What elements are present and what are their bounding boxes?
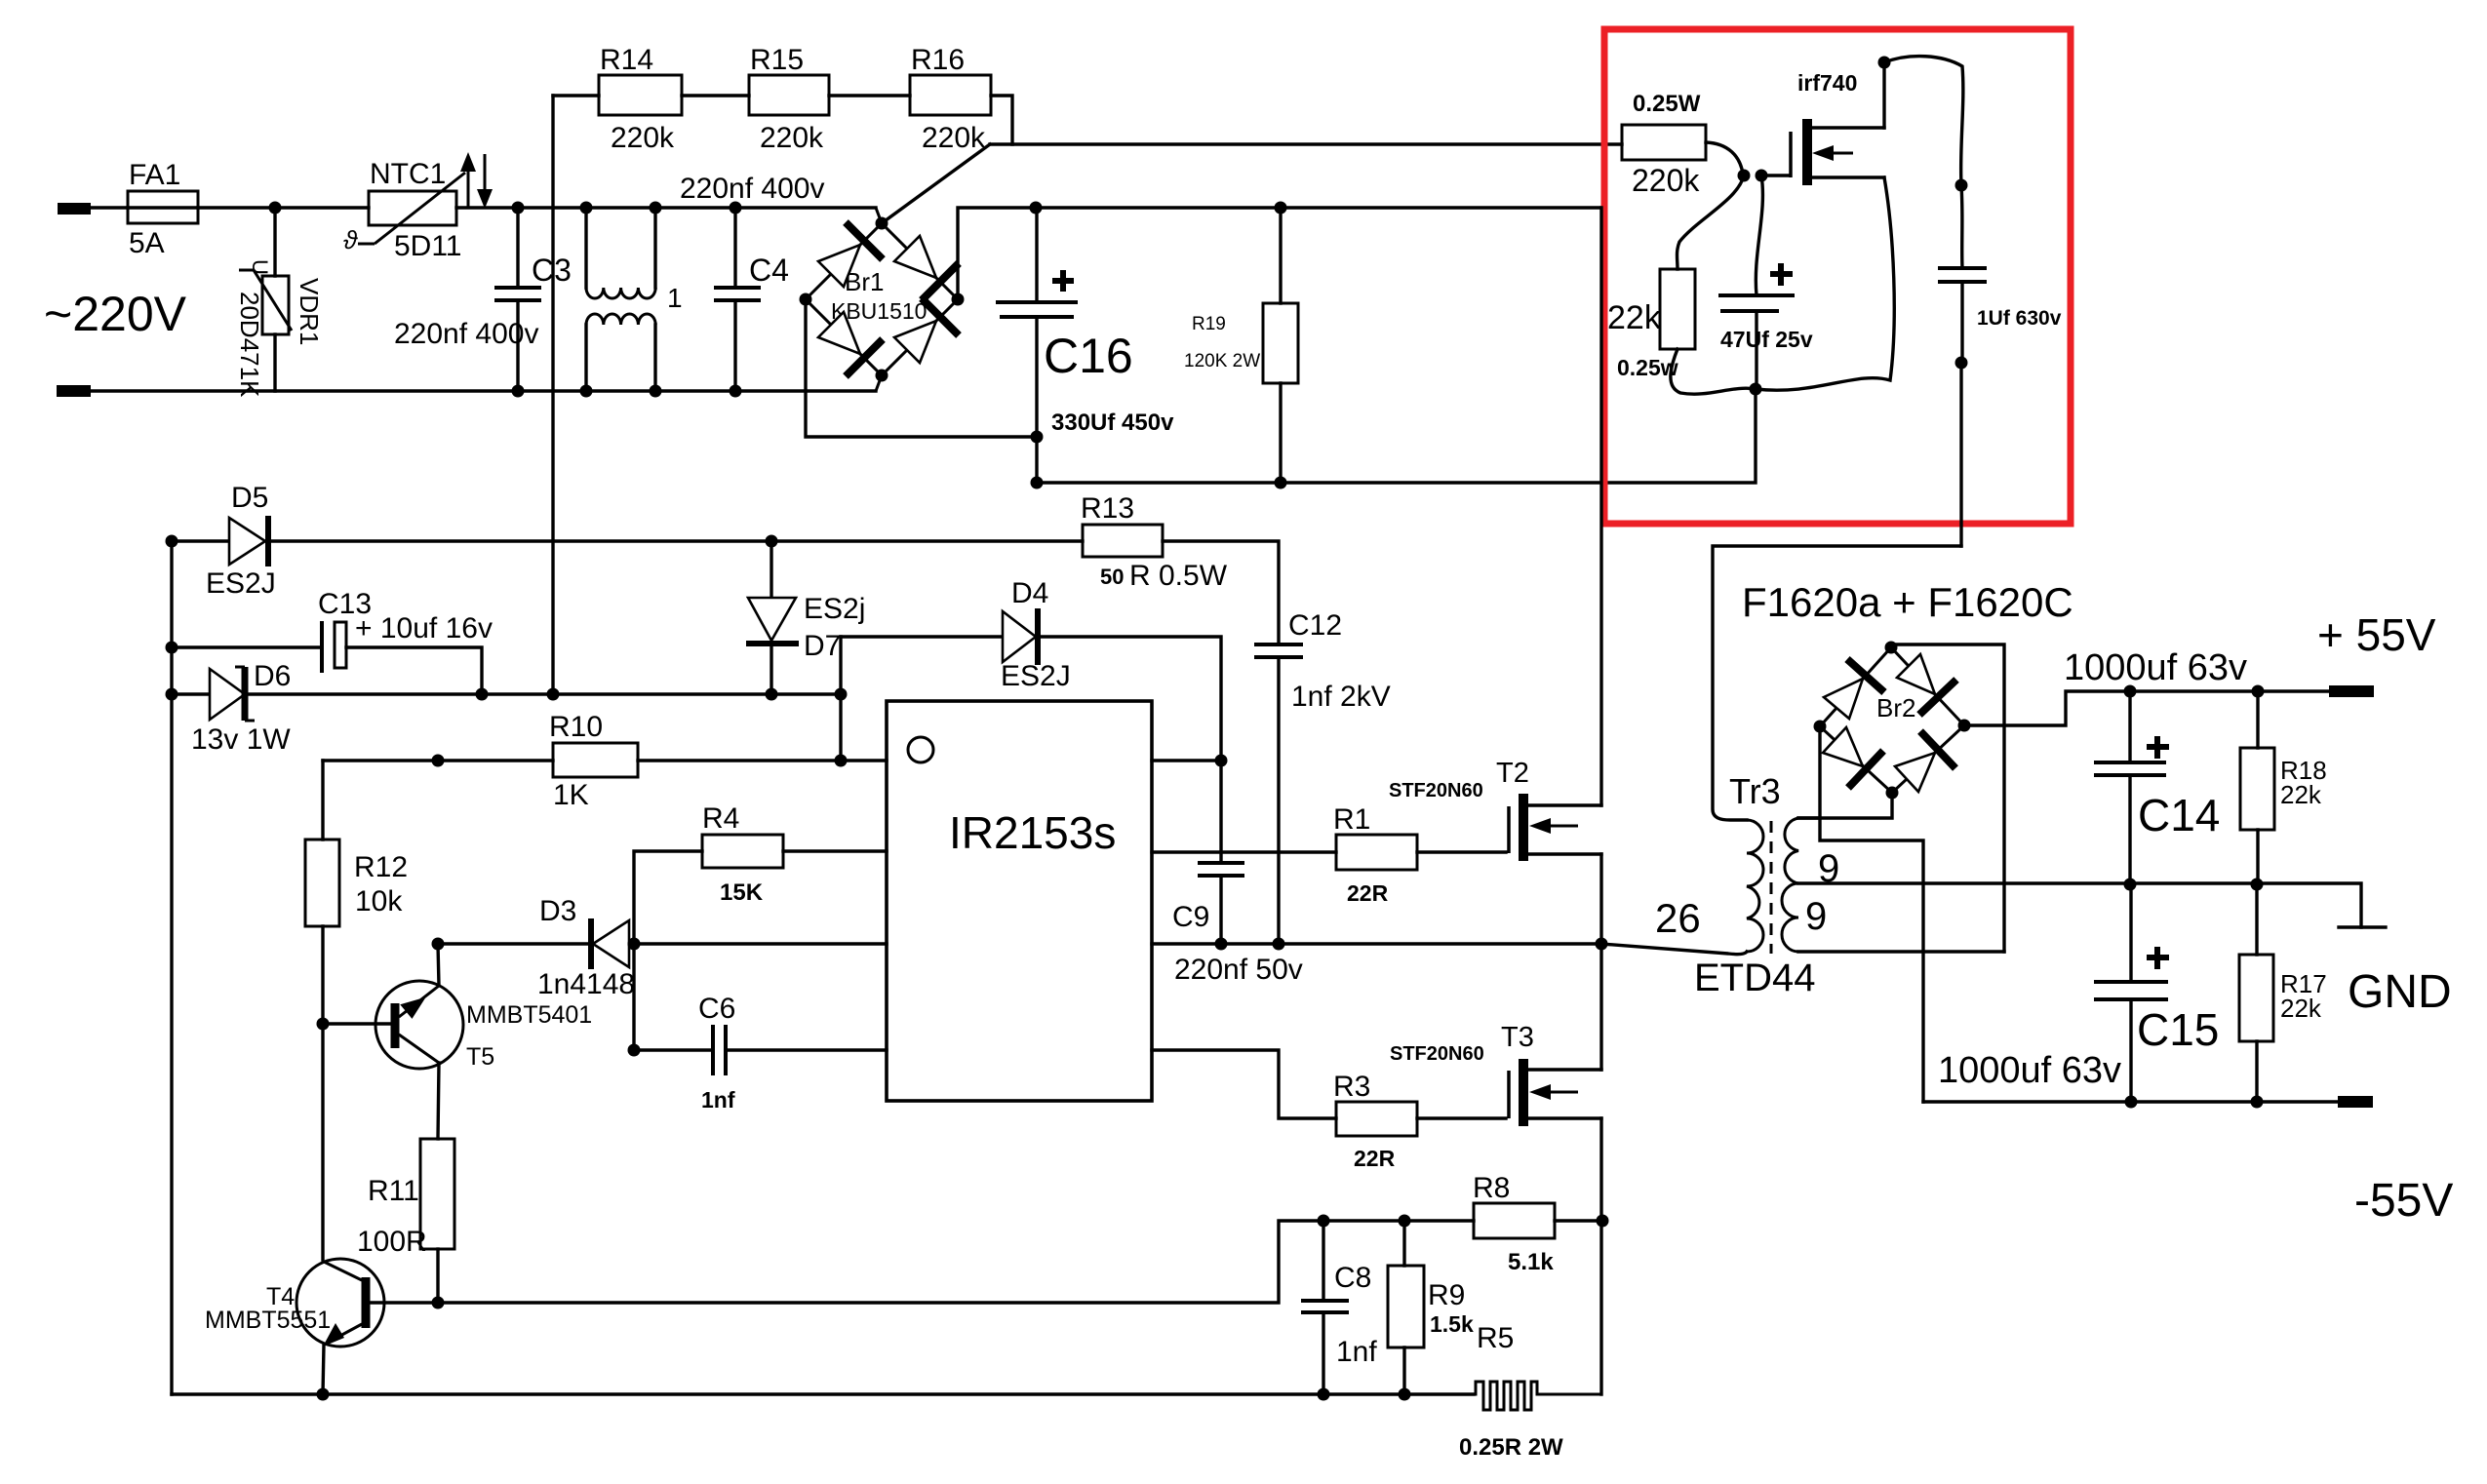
svg-text:220k: 220k xyxy=(760,122,824,154)
wire VS rail xyxy=(1152,938,1608,951)
wire halfbridge vertical xyxy=(1599,208,1602,1394)
svg-text:R 0.5W: R 0.5W xyxy=(1129,560,1228,592)
node Br2 corners xyxy=(1814,642,1971,800)
wire VB pin xyxy=(1152,755,1228,767)
capacitor C4 xyxy=(680,173,824,398)
wire Br1 plus riser to DC rail xyxy=(958,208,1036,299)
capacitor C13 xyxy=(166,588,493,694)
svg-text:1000uf 63v: 1000uf 63v xyxy=(1938,1050,2121,1091)
common-mode choke L1 winding top xyxy=(580,202,662,299)
resistor R11 xyxy=(357,1139,454,1303)
MOSFET irf740 xyxy=(1761,70,1884,185)
AC terminal bottom xyxy=(57,385,91,397)
diode D4 xyxy=(841,577,1221,761)
svg-text:22k: 22k xyxy=(2280,780,2322,809)
node junction fuse-VDR xyxy=(269,202,282,215)
svg-text:FA1: FA1 xyxy=(129,159,180,191)
capacitor C16 xyxy=(996,208,1174,489)
wire Br2 left to -55V rail xyxy=(1820,726,1923,1102)
svg-text:C6: C6 xyxy=(698,993,735,1025)
svg-text:irf740: irf740 xyxy=(1797,70,1857,96)
varistor VDR1 xyxy=(235,208,324,398)
label F1620a + F1620C xyxy=(1742,579,2073,625)
svg-text:R14: R14 xyxy=(600,44,653,76)
wire 1uf bottom to transformer primary xyxy=(1713,546,1961,820)
diode Br2 upper-right xyxy=(1897,654,1956,715)
svg-text:120K 2W: 120K 2W xyxy=(1184,351,1260,371)
svg-text:R19: R19 xyxy=(1192,314,1226,334)
diode D5 xyxy=(166,482,1084,600)
svg-text:1n4148: 1n4148 xyxy=(537,968,635,1000)
svg-text:220k: 220k xyxy=(611,122,675,154)
svg-text:10k: 10k xyxy=(355,885,403,918)
svg-text:5D11: 5D11 xyxy=(394,230,462,262)
wire Br2 bottom to secondary top xyxy=(1798,793,1892,818)
svg-text:1K: 1K xyxy=(553,779,589,811)
svg-text:47Uf 25v: 47Uf 25v xyxy=(1720,327,1813,352)
svg-text:330Uf 450v: 330Uf 450v xyxy=(1051,410,1174,436)
MOSFET T2 xyxy=(1509,794,1601,861)
diode Br2 lower-left xyxy=(1823,727,1883,788)
diode D3 1n4148 xyxy=(432,895,888,1000)
svg-text:5.1k: 5.1k xyxy=(1508,1249,1554,1275)
IC IR2153s xyxy=(887,701,1152,1101)
label STF20N60 T2 xyxy=(1389,758,1529,801)
diode Br1 lower-left xyxy=(818,312,883,376)
capacitor 47Uf 25v xyxy=(1718,176,1813,389)
label 1000uf 63v bottom xyxy=(1938,1050,2121,1091)
svg-text:Br2: Br2 xyxy=(1876,693,1915,722)
svg-text:220k: 220k xyxy=(1632,163,1700,198)
svg-text:50: 50 xyxy=(1100,565,1124,589)
svg-text:R12: R12 xyxy=(354,851,408,883)
resistor R4 xyxy=(634,802,887,944)
bridge rectifier Br2 xyxy=(1820,647,1964,793)
diode Br1 upper-left xyxy=(818,222,883,287)
wire 22k bottom squiggle to mosfet source xyxy=(1671,177,1894,396)
svg-text:T5: T5 xyxy=(466,1043,494,1071)
wire -55V rail xyxy=(1923,1096,2338,1109)
node NTC-C3 xyxy=(512,202,525,398)
red highlight box xyxy=(1604,29,2071,524)
wire T4 base rail to R8 row xyxy=(438,1215,1474,1304)
fuse FA1 xyxy=(128,159,198,259)
resistor R5 0.25R shunt xyxy=(1459,1382,1602,1461)
resistor R12 xyxy=(305,761,408,1024)
diode Br2 upper-left xyxy=(1824,659,1884,719)
wire AC line top xyxy=(91,206,876,209)
svg-text:1nf: 1nf xyxy=(701,1087,735,1113)
svg-text:220nf 400v: 220nf 400v xyxy=(394,318,538,350)
svg-text:ES2J: ES2J xyxy=(206,567,276,600)
transistor T5 MMBT5401 xyxy=(317,944,593,1139)
diode Br2 lower-right xyxy=(1895,731,1955,792)
svg-text:220nf 400v: 220nf 400v xyxy=(680,173,824,205)
common-mode choke L1 winding bottom xyxy=(580,283,683,398)
svg-text:MMBT5551: MMBT5551 xyxy=(205,1307,331,1334)
svg-text:-55V: -55V xyxy=(2354,1175,2453,1227)
MOSFET T3 xyxy=(1509,1059,1601,1126)
svg-text:0.25R 2W: 0.25R 2W xyxy=(1459,1434,1563,1461)
resistor R3 xyxy=(1333,1071,1506,1171)
resistor 22k 0.25w xyxy=(1607,269,1695,380)
wire bottom rail xyxy=(172,1388,1474,1401)
thermistor NTC1 xyxy=(343,158,465,262)
svg-text:D3: D3 xyxy=(539,895,576,927)
wire AC line bottom xyxy=(91,389,876,392)
svg-text:U: U xyxy=(248,259,272,275)
svg-text:26: 26 xyxy=(1655,895,1701,941)
svg-text:MMBT5401: MMBT5401 xyxy=(466,1001,592,1029)
svg-text:1: 1 xyxy=(667,283,683,313)
label 1000uf 63v top xyxy=(2064,647,2247,688)
svg-text:22R: 22R xyxy=(1354,1146,1396,1171)
svg-text:T3: T3 xyxy=(1501,1022,1534,1053)
terminal +55V xyxy=(2317,609,2436,697)
resistor R8 xyxy=(1473,1172,1609,1275)
capacitor C8 xyxy=(1301,1221,1377,1401)
diode Br1 lower-right xyxy=(894,298,959,363)
wire divider rail to red box xyxy=(990,142,1622,145)
wire Br2 right to +55V rail xyxy=(1964,685,2329,726)
capacitor C15 xyxy=(2094,884,2219,1102)
wire HO pin to R1 xyxy=(1152,850,1336,853)
svg-text:C15: C15 xyxy=(2137,1004,2219,1055)
svg-text:1Uf 630v: 1Uf 630v xyxy=(1977,307,2062,330)
capacitor 1Uf 630v xyxy=(1938,268,2062,546)
svg-text:1000uf 63v: 1000uf 63v xyxy=(2064,647,2247,688)
resistor R16 xyxy=(910,44,991,154)
svg-text:+ 55V: + 55V xyxy=(2317,609,2436,660)
capacitor C3 xyxy=(394,208,572,391)
resistor R1 xyxy=(1333,803,1506,906)
svg-text:ϑ: ϑ xyxy=(343,225,358,254)
svg-text:R13: R13 xyxy=(1081,492,1134,525)
resistor R15 xyxy=(749,44,910,154)
wire long vertical from R14 xyxy=(551,96,554,694)
capacitor C14 xyxy=(2094,691,2220,885)
terminal -55V xyxy=(2338,1096,2453,1227)
svg-text:100R: 100R xyxy=(357,1226,427,1258)
svg-text:T2: T2 xyxy=(1496,758,1529,789)
svg-text:ES2j: ES2j xyxy=(804,593,865,625)
svg-text:ES2J: ES2J xyxy=(1001,660,1071,692)
svg-text:C12: C12 xyxy=(1288,609,1342,642)
svg-text:5A: 5A xyxy=(129,227,165,259)
svg-text:ETD44: ETD44 xyxy=(1694,957,1816,999)
svg-text:NTC1: NTC1 xyxy=(370,158,446,190)
svg-text:D4: D4 xyxy=(1011,577,1048,609)
svg-text:220k: 220k xyxy=(922,122,986,154)
svg-text:R16: R16 xyxy=(911,44,965,76)
label ~220V xyxy=(44,287,187,341)
wire DC+ top rail xyxy=(1030,202,1602,215)
svg-text:+ 10uf 16v: + 10uf 16v xyxy=(355,612,493,644)
arrow up xyxy=(460,152,476,207)
svg-text:R5: R5 xyxy=(1477,1322,1514,1354)
svg-text:1nf: 1nf xyxy=(1336,1336,1377,1368)
wire left rail xyxy=(170,541,173,1394)
diode D6 zener 13v xyxy=(166,660,848,756)
capacitor C9 xyxy=(1172,761,1303,986)
ground symbol xyxy=(2339,927,2452,1018)
arrow down xyxy=(477,154,493,209)
svg-text:1.5k: 1.5k xyxy=(1430,1311,1474,1337)
resistor R14 xyxy=(553,44,749,154)
svg-text:0.25W: 0.25W xyxy=(1633,91,1701,117)
svg-text:9: 9 xyxy=(1805,895,1827,938)
svg-text:C4: C4 xyxy=(749,253,789,288)
resistor R13 xyxy=(1081,492,1279,644)
svg-text:R1: R1 xyxy=(1333,803,1370,836)
svg-text:20D471K: 20D471K xyxy=(235,292,264,398)
bridge rectifier Br1 xyxy=(806,208,958,391)
svg-text:C16: C16 xyxy=(1044,329,1133,383)
transformer Tr3 primary winding xyxy=(1601,771,1816,999)
svg-text:C9: C9 xyxy=(1172,901,1209,933)
svg-text:R3: R3 xyxy=(1333,1071,1370,1103)
svg-text:C8: C8 xyxy=(1334,1262,1371,1294)
capacitor C12 xyxy=(1254,609,1391,944)
diode D7 xyxy=(746,541,865,694)
diode Br1 upper-right xyxy=(894,236,959,300)
wire Br1 minus to C16 bottom xyxy=(806,299,1037,437)
svg-text:R15: R15 xyxy=(750,44,804,76)
svg-text:D7: D7 xyxy=(804,630,841,662)
svg-text:13v 1W: 13v 1W xyxy=(191,723,291,756)
svg-text:IR2153s: IR2153s xyxy=(949,807,1116,858)
wire R16 to divider rail xyxy=(991,96,1012,144)
svg-text:F1620a + F1620C: F1620a + F1620C xyxy=(1742,579,2073,625)
wire gate node to 22k xyxy=(1678,176,1745,269)
svg-text:1nf 2kV: 1nf 2kV xyxy=(1291,681,1391,713)
wire LO pin to R3 xyxy=(1152,1050,1336,1118)
svg-text:R9: R9 xyxy=(1428,1279,1465,1311)
svg-text:22R: 22R xyxy=(1347,880,1389,906)
wire diagonal Br1 top to divider rail xyxy=(882,144,990,223)
svg-text:R4: R4 xyxy=(702,802,739,835)
svg-text:GND: GND xyxy=(2348,966,2452,1018)
svg-text:C14: C14 xyxy=(2138,790,2220,840)
resistor R 220k 0.25W xyxy=(1622,91,1768,198)
svg-text:220nf 50v: 220nf 50v xyxy=(1174,954,1303,986)
transformer Tr3 secondary top xyxy=(1785,818,1839,890)
AC terminal top xyxy=(58,203,91,215)
svg-text:Tr3: Tr3 xyxy=(1729,771,1781,811)
wire Br2 top to secondary bottom xyxy=(1897,644,2004,952)
resistor R19 xyxy=(1184,202,1298,489)
svg-text:22k: 22k xyxy=(2280,994,2322,1023)
node Br1 corners xyxy=(800,217,965,382)
resistor R17 xyxy=(2239,884,2327,1102)
svg-text:D6: D6 xyxy=(254,660,291,692)
transformer Tr3 secondary bottom xyxy=(1782,883,2004,952)
wire VCC rail xyxy=(323,755,887,767)
svg-text:VDR1: VDR1 xyxy=(295,278,324,345)
svg-text:D5: D5 xyxy=(231,482,268,514)
svg-text:15K: 15K xyxy=(720,879,764,906)
svg-text:~220V: ~220V xyxy=(44,287,187,341)
svg-text:R8: R8 xyxy=(1473,1172,1510,1204)
resistor R10 xyxy=(549,711,638,811)
svg-text:22k: 22k xyxy=(1607,299,1662,336)
resistor R18 xyxy=(2240,691,2327,885)
transistor T4 MMBT5551 xyxy=(205,1024,445,1394)
svg-text:STF20N60: STF20N60 xyxy=(1389,780,1483,801)
transformer Tr3 core xyxy=(1770,821,1773,954)
resistor R9 xyxy=(1388,1221,1514,1401)
wire DC- bus xyxy=(1037,389,1756,483)
label STF20N60 T3 xyxy=(1390,1022,1534,1065)
svg-text:R10: R10 xyxy=(549,711,603,743)
svg-text:STF20N60: STF20N60 xyxy=(1390,1043,1484,1065)
wire irf740 drain to 1uf top xyxy=(1878,57,1968,269)
wire GND mid rail xyxy=(1798,879,2361,928)
svg-text:R11: R11 xyxy=(368,1175,419,1207)
capacitor C6 xyxy=(628,944,888,1113)
